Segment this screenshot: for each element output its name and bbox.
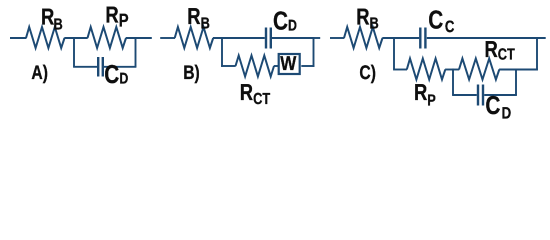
wire C inner-loop bottom right <box>484 94 517 96</box>
resistor RB (circuit B) <box>175 27 214 48</box>
svg-text:CD: CD <box>104 59 128 89</box>
wire C (RP to inner loop) <box>445 69 459 71</box>
wire A left lead <box>10 37 26 39</box>
wire A bottom-left of loop <box>73 66 97 68</box>
wire B top (CD to right) <box>272 37 314 39</box>
wire B (RCT to W box) <box>274 65 280 67</box>
wire B parallel-right vertical <box>313 37 315 67</box>
resistor RCT (circuit C) <box>459 59 499 80</box>
svg-text:C): C) <box>359 62 376 84</box>
svg-text:B): B) <box>183 62 200 84</box>
resistor RCT (circuit B) <box>236 56 275 77</box>
capacitor CC (circuit C) plate 1 <box>419 28 421 49</box>
wire C top (CC to right lead end) <box>427 37 546 39</box>
wire A parallel-right vertical <box>135 37 137 67</box>
svg-text:RCT: RCT <box>240 79 271 108</box>
node C parallel-left junction / wire down <box>393 37 395 69</box>
wire B bottom-left of loop <box>221 65 236 67</box>
svg-text:RP: RP <box>105 2 128 31</box>
wire B parallel-left vertical <box>221 37 223 67</box>
svg-text:RB: RB <box>356 4 379 33</box>
capacitor CD (circuit A) plate 2 <box>102 57 104 77</box>
node A parallel-left junction / wire down <box>73 37 75 67</box>
wire C inner-loop right vertical <box>515 69 517 95</box>
svg-text:RP: RP <box>414 79 436 110</box>
wire B left lead <box>160 37 175 39</box>
wire C left lead <box>330 37 344 39</box>
resistor RB (circuit C) <box>344 27 383 48</box>
svg-text:RCT: RCT <box>485 36 516 64</box>
wire C bottom branch left <box>393 69 407 71</box>
wire C top (RB to CC) <box>382 37 419 39</box>
capacitor CD (circuit B) plate 2 <box>270 28 272 49</box>
capacitor CC (circuit C) plate 2 <box>424 28 426 49</box>
wire B top (RB to CD) <box>213 37 265 39</box>
wire C parallel-right vertical <box>536 37 538 70</box>
wire A right lead <box>126 37 152 39</box>
svg-text:A): A) <box>31 62 48 84</box>
wire C inner-loop bottom left <box>452 94 477 96</box>
capacitor CD (circuit B) plate 1 <box>265 28 267 49</box>
wire B right lead <box>314 37 321 39</box>
wire A bottom-right of loop <box>104 66 136 68</box>
svg-text:CD: CD <box>273 5 297 35</box>
svg-text:W: W <box>280 53 296 75</box>
wire C inner-loop left vertical <box>452 69 454 95</box>
resistor RP (circuit A) <box>88 27 127 48</box>
wire B (W box to right vertical) <box>301 65 314 67</box>
wire A middle (RB to RP) <box>64 37 87 39</box>
svg-text:RB: RB <box>41 3 63 33</box>
resistor RB (circuit A) <box>26 27 65 48</box>
resistor RP (circuit C) <box>407 59 446 80</box>
svg-text:RB: RB <box>187 3 210 33</box>
wire C (RCT to outer right vertical) <box>499 69 538 71</box>
svg-text:CC: CC <box>428 4 454 36</box>
capacitor CD (circuit C) plate 1 <box>477 85 479 106</box>
capacitor CD (circuit A) plate 1 <box>97 57 99 77</box>
Warburg element W box (circuit B) <box>279 54 300 74</box>
capacitor CD (circuit C) plate 2 <box>482 85 484 106</box>
